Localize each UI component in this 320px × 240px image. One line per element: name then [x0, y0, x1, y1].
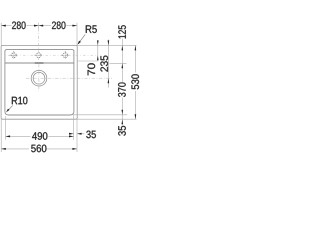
bowl rounded rectangle R10: [5, 50, 74, 115]
arrows 280 left: [1, 25, 6, 27]
top edge extension line (right side): [77, 44, 137, 46]
label 235: [100, 56, 108, 72]
arrows 280 right: [39, 25, 44, 27]
drain inner circle: [33, 72, 45, 84]
overflow slot dark bar: [35, 62, 44, 63]
dim 530 line: [134, 45, 136, 72]
R5 leader: [78, 34, 85, 43]
tap hole right: [63, 53, 68, 58]
outer bottom extension (right side): [77, 118, 137, 120]
drain horizontal centerline: [26, 77, 113, 79]
dim 490 line: [6, 135, 31, 137]
dim 235 line: [107, 40, 109, 88]
top dimension middle tick: [38, 23, 40, 29]
dimension line 280 right segment: [39, 25, 52, 27]
label 35 vertical: [118, 126, 126, 136]
label 370: [118, 83, 126, 97]
dimension line 280 left segment: [1, 25, 11, 27]
tap hole centerline horizontal: [8, 54, 97, 56]
drain outer circle: [31, 70, 47, 86]
top dimension extension line right: [76, 23, 78, 46]
label 125: [118, 25, 126, 38]
bowl bottom extension (right side): [73, 114, 127, 116]
sink outer rim rectangle 560x530: [1, 45, 77, 119]
label 35 horizontal: [86, 131, 96, 139]
label 490: [32, 132, 47, 140]
R10 leader: [7, 105, 13, 111]
label 70: [88, 63, 96, 75]
label 530: [131, 74, 139, 89]
tap hole centre: [36, 53, 41, 58]
dim 70 line with outside arrows and hook: [97, 40, 99, 61]
label 560: [31, 145, 46, 153]
dim 35 horizontal line: [70, 133, 74, 135]
centre hole vertical centerline: [38, 28, 40, 60]
drain vertical centerline: [38, 64, 40, 91]
deck line extension (right side): [110, 62, 127, 64]
bottom extension lines: [0, 119, 2, 152]
dim 125/370 chain line: [121, 39, 123, 82]
deck front line across bowl: [5, 62, 74, 64]
top dimension extension line left: [0, 23, 2, 46]
dim 560 line: [1, 148, 29, 150]
label 280 right: [52, 22, 66, 30]
R10 label: [12, 97, 28, 105]
label 280 left: [12, 22, 26, 30]
tap hole left: [11, 53, 16, 58]
R5 label: [86, 25, 97, 33]
